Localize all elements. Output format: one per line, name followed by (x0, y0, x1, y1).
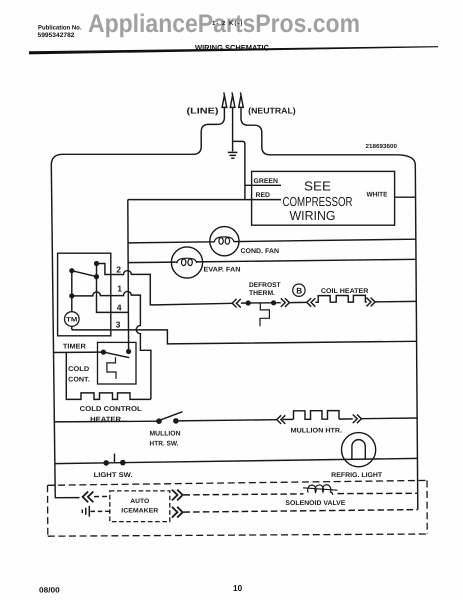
resistor cold control heater loop (66, 352, 151, 399)
svg-text:3: 3 (116, 320, 121, 330)
connector arrows right (icemaker out upper) (172, 490, 183, 501)
wire timer terminal 3 (72, 330, 417, 344)
ground icemaker (82, 506, 89, 517)
mullion switch blade (161, 412, 183, 420)
cold control sensing element (107, 357, 116, 379)
wire dashed solenoid to right rail (338, 492, 418, 494)
svg-text:(LINE): (LINE) (187, 105, 219, 115)
node timer common A (69, 268, 74, 273)
wire light row (55, 458, 418, 463)
wire to defrost thermostat (241, 302, 248, 304)
cold control blade (103, 352, 129, 358)
svg-text:AUTO: AUTO (130, 498, 149, 505)
svg-text:4: 4 (117, 303, 122, 313)
motor M2 evaporator fan (171, 247, 202, 278)
connector arrows right (mullion htr out) (353, 415, 362, 424)
connector arrows left (coil heater in) (307, 298, 316, 307)
wire contact B-C link (96, 264, 98, 277)
svg-text:B: B (296, 286, 302, 295)
svg-text:COMPRESSOR: COMPRESSOR (283, 194, 353, 209)
connector arrows right (icemaker out lower) (172, 507, 183, 518)
timer switch blade (72, 271, 97, 277)
svg-text:SOLENOID VALVE: SOLENOID VALVE (285, 500, 345, 507)
compressor box (252, 171, 395, 225)
wire line-in S-curve to left rail (51, 107, 224, 165)
wire between connectors (289, 301, 307, 303)
wire green branch to compressor (233, 141, 245, 199)
svg-text:MULLION HTR.: MULLION HTR. (291, 428, 343, 435)
ground arrow (power entry) (230, 92, 235, 107)
wire vertical bus (127, 200, 130, 352)
resistor coil heater (315, 295, 367, 302)
svg-text:1- 2 K(-): 1- 2 K(-) (212, 20, 243, 27)
wire dashed solenoid row to rail bottom (184, 510, 418, 512)
connector arrows left (defrost in) (232, 299, 241, 308)
label SEE COMPRESSOR WIRING (283, 178, 353, 223)
wire timer terminal 4 (97, 277, 128, 313)
svg-text:EVAP. FAN: EVAP. FAN (204, 267, 241, 274)
node timer contact D (69, 293, 74, 298)
wire thermostat to connector (274, 302, 281, 304)
wire defrost row segment 1 (156, 303, 233, 305)
wire coil heater to right rail (375, 300, 416, 303)
wire connector to mullion heater (283, 418, 294, 420)
svg-text:RED: RED (256, 192, 271, 199)
ground symbol (power entry) (228, 152, 238, 158)
wire left rail (51, 165, 55, 494)
svg-text:Publication No.: Publication No. (38, 25, 82, 32)
svg-text:COLD CONTROL: COLD CONTROL (80, 406, 143, 413)
wire left rail to cold control (53, 351, 104, 353)
neutral arrow (power entry) (239, 92, 244, 107)
connector arrows left (icemaker in) (83, 492, 94, 503)
node cold control right (126, 349, 131, 354)
wire timer motor lead (71, 326, 73, 330)
node B circle (293, 284, 305, 296)
defrost thermostat capillary (260, 303, 269, 326)
wire red lead (128, 199, 281, 201)
node timer contact C (94, 274, 99, 279)
svg-text:COND. FAN: COND. FAN (241, 248, 280, 255)
motor M1 condenser fan (210, 227, 239, 256)
svg-text:TIMER: TIMER (63, 343, 86, 350)
node light switch left (103, 460, 109, 466)
svg-text:10: 10 (233, 583, 242, 593)
svg-text:TM: TM (66, 317, 77, 324)
svg-text:THERM.: THERM. (249, 290, 275, 297)
node defrost thermostat right (271, 300, 276, 305)
svg-text:COIL HEATER: COIL HEATER (321, 288, 369, 295)
svg-text:REFRIG. LIGHT: REFRIG. LIGHT (331, 472, 383, 479)
svg-text:SEE: SEE (304, 178, 331, 193)
line arrow (power entry) (222, 92, 227, 107)
wire mullion switch to connector (176, 420, 277, 421)
timer box (58, 253, 111, 336)
node mullion switch left (156, 418, 162, 424)
icemaker box (110, 491, 170, 522)
svg-text:LIGHT SW.: LIGHT SW. (94, 472, 133, 479)
defrost thermostat blade (248, 302, 273, 304)
wire mullion row left (54, 420, 159, 423)
wire ground drop (232, 107, 234, 151)
svg-text:CONT.: CONT. (68, 377, 90, 384)
svg-text:218693600: 218693600 (366, 143, 398, 150)
wire neutral-in S-curve to right rail (241, 107, 415, 165)
connector arrows right (coil heater out) (367, 298, 376, 307)
wire left rail corner into icemaker (55, 494, 79, 498)
node cold control left (101, 350, 106, 355)
resistor mullion heater (294, 411, 340, 420)
icemaker dashed enclosure (48, 480, 428, 536)
svg-text:5995342782: 5995342782 (38, 32, 75, 39)
svg-text:(NEUTRAL): (NEUTRAL) (248, 106, 296, 116)
svg-text:1: 1 (117, 284, 122, 294)
timer motor TM (65, 312, 80, 327)
svg-text:GREEN: GREEN (254, 178, 279, 185)
node mullion switch right (173, 418, 179, 424)
wire evaporator fan row (128, 261, 177, 264)
svg-text:WIRING: WIRING (290, 208, 336, 223)
wire dashed ground to icemaker (91, 510, 110, 512)
svg-text:COLD: COLD (68, 366, 89, 373)
wire timer terminal 2 (97, 264, 157, 305)
node defrost thermostat left (246, 300, 251, 305)
wire dashed to icemaker box (94, 495, 110, 497)
light switch blade (114, 454, 116, 463)
header rule (tapered) (29, 46, 438, 54)
wire green lead (245, 184, 281, 186)
node light switch right (120, 460, 126, 466)
node timer contact B (94, 261, 99, 266)
svg-text:HTR. SW.: HTR. SW. (150, 440, 179, 447)
svg-text:08/00: 08/00 (39, 585, 60, 594)
wire timer common vertical (71, 271, 73, 312)
wire dashed icemaker to solenoid (184, 494, 304, 495)
connector arrows left (mullion htr in) (277, 415, 286, 424)
wire condenser fan row (128, 242, 215, 243)
wire white lead (395, 196, 416, 198)
wire mullion row to right rail (362, 417, 418, 420)
wire mullion heater to connector (339, 418, 353, 420)
svg-text:WHITE: WHITE (367, 192, 388, 199)
svg-text:DEFROST: DEFROST (249, 282, 281, 289)
solenoid valve coil (303, 485, 338, 495)
svg-text:ICEMAKER: ICEMAKER (121, 508, 158, 515)
cold control box (98, 342, 137, 384)
wire right rail (415, 165, 418, 510)
lamp refrigerator light (342, 433, 376, 467)
wire timer terminal 1 (72, 291, 151, 399)
connector arrows right (defrost out) (281, 298, 290, 307)
svg-text:2: 2 (116, 265, 121, 275)
svg-text:MULLION: MULLION (150, 430, 181, 437)
